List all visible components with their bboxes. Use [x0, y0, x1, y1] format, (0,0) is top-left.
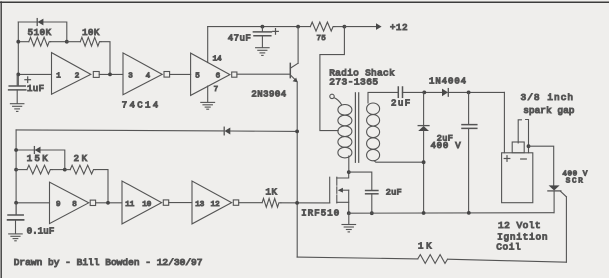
border frame top [0, 1, 609, 3]
capacitor C6 2uF 400V [462, 92, 477, 212]
wire: ground rail bottom [349, 212, 554, 215]
ground under 47uF [256, 48, 270, 56]
node: clamp diode rail [422, 211, 426, 215]
diode D4 on feedback [224, 127, 297, 135]
wire: pin 7 to ground [207, 86, 209, 102]
svg-text:2: 2 [75, 72, 80, 80]
wire: osc2 left vertical [15, 130, 17, 215]
resistor 510K [18, 37, 67, 46]
coil minus terminal [521, 158, 527, 160]
ignition coil HV tower [512, 142, 524, 153]
svg-text:IRF510: IRF510 [301, 209, 340, 219]
wire: diode D1 loop top [18, 22, 67, 42]
ground under IRF510 [342, 213, 356, 232]
spark gap right electrode [526, 120, 529, 153]
wire: inverter4 out [96, 202, 122, 204]
node: gap junction [527, 144, 531, 148]
border frame left [0, 2, 2, 278]
ground under C2 [9, 234, 23, 241]
svg-text:13: 13 [195, 201, 205, 209]
resistor 1K gate [262, 198, 281, 207]
node: 510K/10K junction [65, 40, 69, 44]
node: HV cap rail [467, 211, 471, 215]
node: 75 right junction [343, 25, 347, 29]
svg-text:1K: 1K [418, 241, 434, 251]
node: drain junction [347, 170, 351, 174]
node: source junction [347, 211, 351, 215]
svg-text:4: 4 [146, 72, 151, 80]
svg-text:15K: 15K [27, 154, 50, 164]
node: HV cap top [467, 91, 471, 95]
svg-text:510K: 510K [28, 28, 52, 38]
op-amp U1E inverter pins 11-10 [122, 181, 169, 224]
transistor Q1 2N3904 [237, 27, 298, 83]
wire: secondary top out [368, 92, 398, 103]
svg-text:1N4004: 1N4004 [429, 77, 467, 87]
capacitor C3 47uF [253, 27, 271, 48]
ignition coil body [502, 153, 533, 203]
resistor 1K bottom [418, 255, 448, 264]
svg-text:11: 11 [125, 201, 135, 209]
resistor 2K [65, 165, 108, 203]
wire: diode D5 loop [16, 150, 65, 170]
svg-text:5: 5 [195, 72, 200, 80]
svg-text:7: 7 [214, 86, 219, 94]
transformer T1 primary open terminal [330, 94, 342, 104]
wire: inverter5 to inverter6 [169, 202, 192, 204]
wire: to coil plus [503, 92, 505, 152]
node: collector rail junction [296, 25, 300, 29]
svg-text:0.1uF: 0.1uF [27, 227, 55, 237]
svg-text:74C14: 74C14 [122, 100, 161, 110]
transformer T1 primary winding [338, 105, 352, 158]
svg-text:9: 9 [56, 201, 61, 209]
op-amp U1C inverter pins 5-6 [191, 53, 237, 95]
wire: top osc left vertical [17, 22, 19, 86]
plus sign C3 [273, 29, 279, 35]
wire: inverter1 out [99, 73, 123, 75]
diode D1 (across 510K) [37, 19, 43, 26]
wire: drain to C5 [349, 172, 372, 190]
wire: +12 feed with arrow [344, 23, 381, 30]
svg-text:2N3904: 2N3904 [251, 90, 286, 100]
wire: SCR gate down [565, 197, 567, 262]
capacitor C2 0.1uF [8, 203, 24, 234]
wire: inverter6 out [239, 202, 262, 204]
svg-text:2uF: 2uF [386, 188, 402, 198]
wire: primary bottom to drain node [348, 156, 350, 172]
node: secondary bottom junction [422, 160, 426, 164]
svg-text:+12: +12 [390, 23, 408, 33]
wire: inverter2 to inverter3 [170, 73, 191, 75]
svg-text:10: 10 [142, 201, 152, 209]
resistor 10K [67, 37, 110, 74]
wire: bottom feedback left segment [297, 257, 418, 259]
svg-text:75: 75 [317, 35, 327, 43]
capacitor C1 1uF [9, 74, 26, 103]
diode D5 (across 15K) [34, 147, 40, 154]
wire: transformer feed step [320, 27, 345, 131]
coil plus terminal [504, 156, 510, 162]
svg-text:12: 12 [211, 201, 220, 209]
svg-text:Drawn by - Bill Bowden - 12/30: Drawn by - Bill Bowden - 12/30/97 [14, 257, 203, 268]
wire: osc2 feedback top [16, 130, 224, 131]
op-amp U1D inverter pins 9-8 [50, 182, 96, 223]
resistor 15K [16, 165, 65, 174]
wire: emitter vertical long [296, 82, 298, 257]
wire: secondary bottom out [374, 161, 424, 163]
capacitor C4 2uF coupling [398, 87, 442, 97]
transformer T1 secondary winding [367, 103, 380, 161]
node: emitter/feedback junction [295, 130, 299, 134]
node: input junction [16, 73, 20, 77]
node: feedback junction [108, 73, 112, 77]
svg-text:14: 14 [213, 55, 223, 63]
svg-text:10K: 10K [82, 28, 100, 38]
node: 15K left [14, 168, 18, 172]
op-amp U1B inverter pins 3-4 [123, 53, 170, 95]
svg-text:12 Volt: 12 Volt [498, 220, 541, 231]
wire: bottom feedback right segment [448, 259, 567, 262]
node: 510K left [16, 40, 20, 44]
diode D3 1N4004 [442, 89, 504, 97]
ground under C1 [10, 104, 24, 112]
node: osc2 feedback junction [106, 201, 110, 205]
wire: inverter4 input [16, 202, 49, 204]
svg-text:1: 1 [56, 72, 61, 80]
svg-text:400 V: 400 V [431, 141, 462, 151]
svg-text:spark gap: spark gap [523, 105, 575, 116]
svg-text:Coil: Coil [496, 241, 521, 252]
node: clamp diode top [422, 91, 426, 95]
transistor M1 IRF510 [330, 172, 349, 213]
capacitor C5 2uF [366, 191, 378, 214]
svg-text:47uF: 47uF [228, 33, 252, 43]
svg-text:2uF: 2uF [391, 98, 412, 108]
svg-text:6: 6 [216, 72, 221, 80]
op-amp U1A inverter pins 1-2 [52, 53, 100, 95]
svg-text:2K: 2K [74, 154, 90, 164]
spark gap left electrode [518, 120, 521, 143]
thyristor SCR 400V [548, 185, 567, 212]
svg-text:1K: 1K [266, 188, 278, 198]
node: 15K/2K junction [63, 168, 67, 172]
svg-text:273-1365: 273-1365 [329, 76, 378, 87]
svg-text:SCR: SCR [566, 178, 585, 186]
op-amp U1F inverter pins 13-12 [192, 181, 239, 224]
wire: +V rail [208, 26, 311, 28]
svg-text:1uF: 1uF [27, 84, 44, 94]
node: D5 loop left [14, 148, 18, 152]
wire: gate wire [281, 202, 330, 204]
resistor 75 [310, 22, 344, 31]
node: C5 bottom [370, 211, 374, 215]
diode D2 clamp vertical [418, 92, 429, 212]
ground under pin 7 [201, 102, 215, 109]
node: osc2 input junction [14, 201, 18, 205]
wire: pin 14 to rail [207, 27, 209, 63]
wire: inverter1 input [18, 73, 51, 75]
transformer T1 core [355, 93, 358, 163]
node: emitter/gate junction [295, 201, 299, 205]
plus sign C1 [25, 77, 31, 83]
svg-text:3: 3 [128, 72, 133, 80]
svg-text:8: 8 [72, 201, 77, 209]
node: 47uF rail junction [261, 25, 265, 29]
wire: gap to SCR anode [529, 146, 554, 185]
svg-text:3/8 inch: 3/8 inch [521, 92, 575, 103]
